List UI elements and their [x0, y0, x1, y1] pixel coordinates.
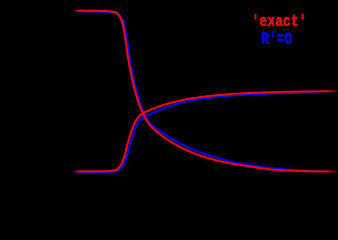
left edge fade-in on curve starts	[0, 0, 1, 1]
curve exact descending (red)	[74, 11, 338, 172]
svg-text:R'=O: R'=O	[262, 30, 293, 49]
svg-text:'exact': 'exact'	[252, 12, 307, 31]
curve R'=0 descending (blue)	[76, 11, 338, 171]
curve exact ascending (red)	[74, 91, 338, 171]
curve R'=0 ascending (blue)	[76, 91, 338, 172]
